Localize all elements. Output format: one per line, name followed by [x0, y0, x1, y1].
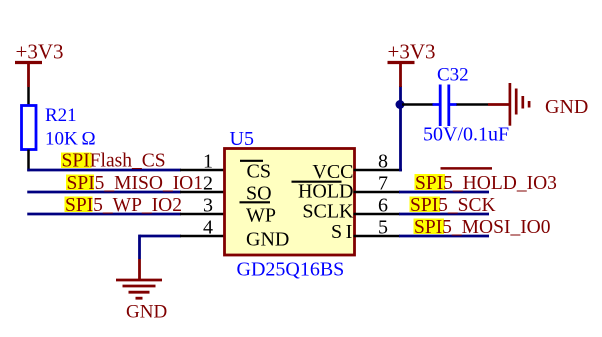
ground symbol (right, sideways)	[488, 83, 529, 126]
pin 1 stub	[180, 169, 226, 172]
ground symbol (bottom)	[116, 259, 162, 298]
svg-text:SPI5_WP_IO2: SPI5_WP_IO2	[65, 195, 182, 216]
svg-text:GND: GND	[545, 96, 588, 118]
wire (VCC net, vertical)	[399, 86, 402, 171]
svg-text:SPI5_SCK: SPI5_SCK	[410, 195, 496, 216]
svg-text:SPIFlash_CS: SPIFlash_CS	[62, 151, 166, 172]
svg-text:3: 3	[203, 195, 213, 217]
pin name HOLD overbar	[292, 181, 342, 183]
svg-text:SPI5_HOLD_IO3: SPI5_HOLD_IO3	[415, 173, 557, 194]
capacitor C32	[433, 85, 458, 127]
svg-text:SPI5_MOSI_IO0: SPI5_MOSI_IO0	[414, 217, 551, 238]
net label SPIFlash_CS	[61, 151, 166, 172]
net label SPI5_HOLD_IO3	[415, 168, 557, 194]
svg-text:5: 5	[378, 217, 388, 239]
svg-text:CS: CS	[247, 161, 271, 183]
pin 4 stub	[180, 235, 226, 238]
pin 5 stub	[354, 235, 401, 238]
svg-text:GND: GND	[126, 302, 167, 323]
wire (net SPIFlash_CS)	[27, 169, 181, 172]
svg-text:10K Ω: 10K Ω	[45, 129, 96, 150]
wire (net SPI5_WP_IO2)	[27, 213, 181, 216]
pin 3 stub	[180, 213, 226, 216]
pin 6 stub	[354, 213, 401, 216]
svg-text:50V/0.1uF: 50V/0.1uF	[423, 124, 509, 146]
svg-text:6: 6	[378, 195, 388, 217]
net label SPI5_MISO_IO1	[66, 173, 203, 194]
wire (net SPI5_HOLD_IO3)	[399, 191, 489, 194]
svg-text:SCLK: SCLK	[302, 201, 354, 223]
svg-text:C32: C32	[437, 65, 469, 86]
svg-text:+3V3: +3V3	[388, 40, 436, 64]
net label SPI5_MOSI_IO0	[414, 217, 551, 238]
pin 8 stub	[354, 169, 403, 172]
svg-text:U5: U5	[230, 128, 254, 150]
power +3V3 (right)	[388, 40, 436, 88]
junction	[396, 100, 405, 109]
svg-text:HOLD: HOLD	[298, 181, 354, 203]
svg-text:WP: WP	[246, 205, 276, 227]
svg-text:R21: R21	[45, 105, 77, 126]
wire (net SPI5_SCK)	[399, 213, 489, 216]
svg-text:4: 4	[203, 217, 213, 239]
wire (net SPI5_MOSI_IO0)	[399, 235, 489, 238]
net label SPI5_WP_IO2	[65, 195, 183, 216]
pin 2 stub	[180, 191, 226, 194]
pin name CS overbar	[240, 160, 263, 162]
wire (C32 to ground)	[457, 103, 489, 106]
svg-text:SI: SI	[331, 221, 356, 243]
svg-text:8: 8	[378, 151, 388, 173]
svg-text:GD25Q16BS: GD25Q16BS	[237, 259, 345, 281]
svg-text:+3V3: +3V3	[16, 40, 64, 64]
power +3V3 (left)	[15, 40, 64, 88]
wire (GND net, horizontal)	[140, 235, 182, 238]
pin name WP overbar	[240, 201, 271, 203]
IC U5 body	[225, 149, 355, 256]
resistor R21	[22, 106, 37, 150]
pin 7 stub	[354, 191, 401, 194]
wire (net SPI5_MISO_IO1)	[27, 191, 181, 194]
svg-text:2: 2	[203, 173, 213, 195]
wire	[27, 150, 30, 172]
svg-text:1: 1	[203, 151, 213, 173]
wire	[27, 87, 30, 106]
wire (junction to C32)	[402, 103, 434, 106]
net label SPI5_SCK	[410, 195, 496, 216]
svg-text:7: 7	[378, 173, 388, 195]
svg-text:GND: GND	[246, 229, 289, 251]
wire (GND net, vertical)	[138, 235, 141, 259]
